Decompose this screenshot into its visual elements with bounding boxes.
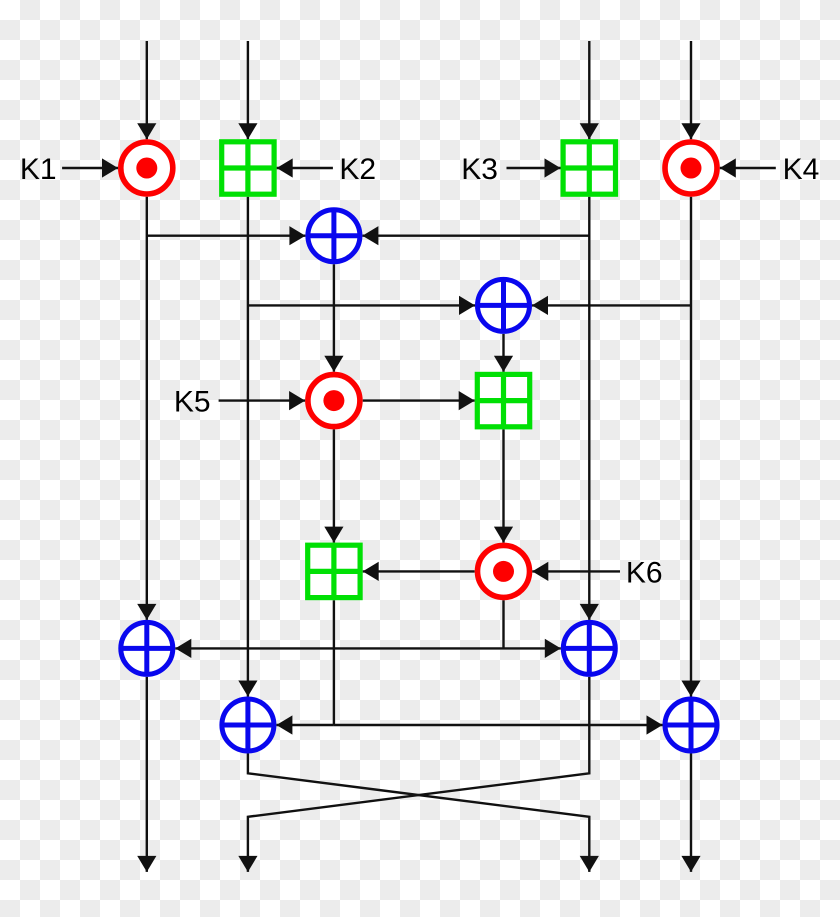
svg-text:K3: K3 bbox=[461, 153, 498, 186]
wire K4 label arrow bbox=[720, 158, 776, 177]
XOR row5 right bbox=[563, 622, 615, 674]
XOR row6 right bbox=[665, 699, 717, 751]
input wire X4 (top, into K4 multiplier) bbox=[681, 41, 700, 139]
multiplier K1 (mod 2^16+1 multiply) bbox=[121, 142, 173, 194]
wire column 2 (K2 output down to lower-left XOR) bbox=[238, 197, 257, 697]
wire column 3 (K3 output down to right XOR) bbox=[580, 197, 599, 620]
input wire X3 (top, into K3 adder) bbox=[580, 41, 599, 139]
wire K2 label arrow bbox=[277, 158, 333, 177]
svg-text:K2: K2 bbox=[339, 153, 376, 186]
svg-text:K5: K5 bbox=[174, 386, 211, 419]
wire K5 multiplier output down to adder D bbox=[324, 429, 343, 542]
output wire Y3 crossing (right XOR down, diagonal left, to bottom arrow) bbox=[238, 677, 589, 872]
svg-text:K4: K4 bbox=[783, 153, 820, 186]
wire from column 3 into XOR A right bbox=[362, 226, 589, 245]
XOR row5 left bbox=[121, 622, 173, 674]
adder D bbox=[308, 545, 360, 597]
wire junction to lower-right XOR (row 6) bbox=[334, 715, 663, 734]
XOR B bbox=[478, 279, 530, 331]
wire K5 label arrow bbox=[219, 391, 306, 410]
adder K2 (mod 2^16 add) bbox=[222, 142, 274, 194]
XOR A bbox=[308, 210, 360, 262]
wire K6 label arrow bbox=[532, 562, 620, 581]
output wire Y1 (left XOR down to bottom arrow) bbox=[137, 677, 156, 872]
wire XOR A output down to K5 multiplier bbox=[324, 264, 343, 372]
wire junction to right XOR (row 5) bbox=[504, 639, 561, 658]
multiplier K4 (mod 2^16+1 multiply) bbox=[665, 142, 717, 194]
adder C bbox=[477, 374, 529, 426]
wire junction to left XOR (row 5) bbox=[175, 639, 503, 658]
wire K6 multiplier output left to adder D bbox=[363, 562, 475, 581]
multiplier K5 bbox=[308, 375, 360, 427]
adder K3 (mod 2^16 add) bbox=[563, 142, 615, 194]
svg-text:K6: K6 bbox=[626, 556, 663, 589]
output wire Y2 crossing (lower-left XOR down, diagonal right, to bottom arrow) bbox=[248, 754, 599, 872]
wire from column 2 into XOR B left bbox=[248, 296, 475, 315]
wire from column 1 into XOR A left bbox=[147, 226, 306, 245]
wire adder D output down then split to lower XORs bbox=[333, 600, 335, 725]
wire column 1 (K1 output down to left XOR) bbox=[137, 197, 156, 620]
wire K1 label arrow bbox=[62, 158, 118, 177]
multiplier K6 bbox=[478, 545, 530, 597]
wire K6 multiplier output down then split to left and right XORs bbox=[502, 600, 504, 648]
svg-text:K1: K1 bbox=[20, 153, 57, 186]
input wire X1 (top, into K1 multiplier) bbox=[137, 41, 156, 139]
wire junction to lower-left XOR (row 6) bbox=[276, 715, 334, 734]
input wire X2 (top, into K2 adder) bbox=[238, 41, 257, 139]
wire column 4 (K4 output down to lower-right XOR) bbox=[681, 197, 700, 697]
wire from column 4 into XOR B right bbox=[532, 296, 691, 315]
wire XOR B output down to adder C bbox=[494, 334, 513, 372]
output wire Y4 (lower-right XOR down to bottom arrow) bbox=[681, 754, 700, 872]
wire K5 multiplier output right to adder C bbox=[363, 391, 475, 410]
XOR row6 left bbox=[222, 699, 274, 751]
wire adder C output down to K6 multiplier bbox=[494, 429, 513, 542]
wire K3 label arrow bbox=[507, 158, 561, 177]
